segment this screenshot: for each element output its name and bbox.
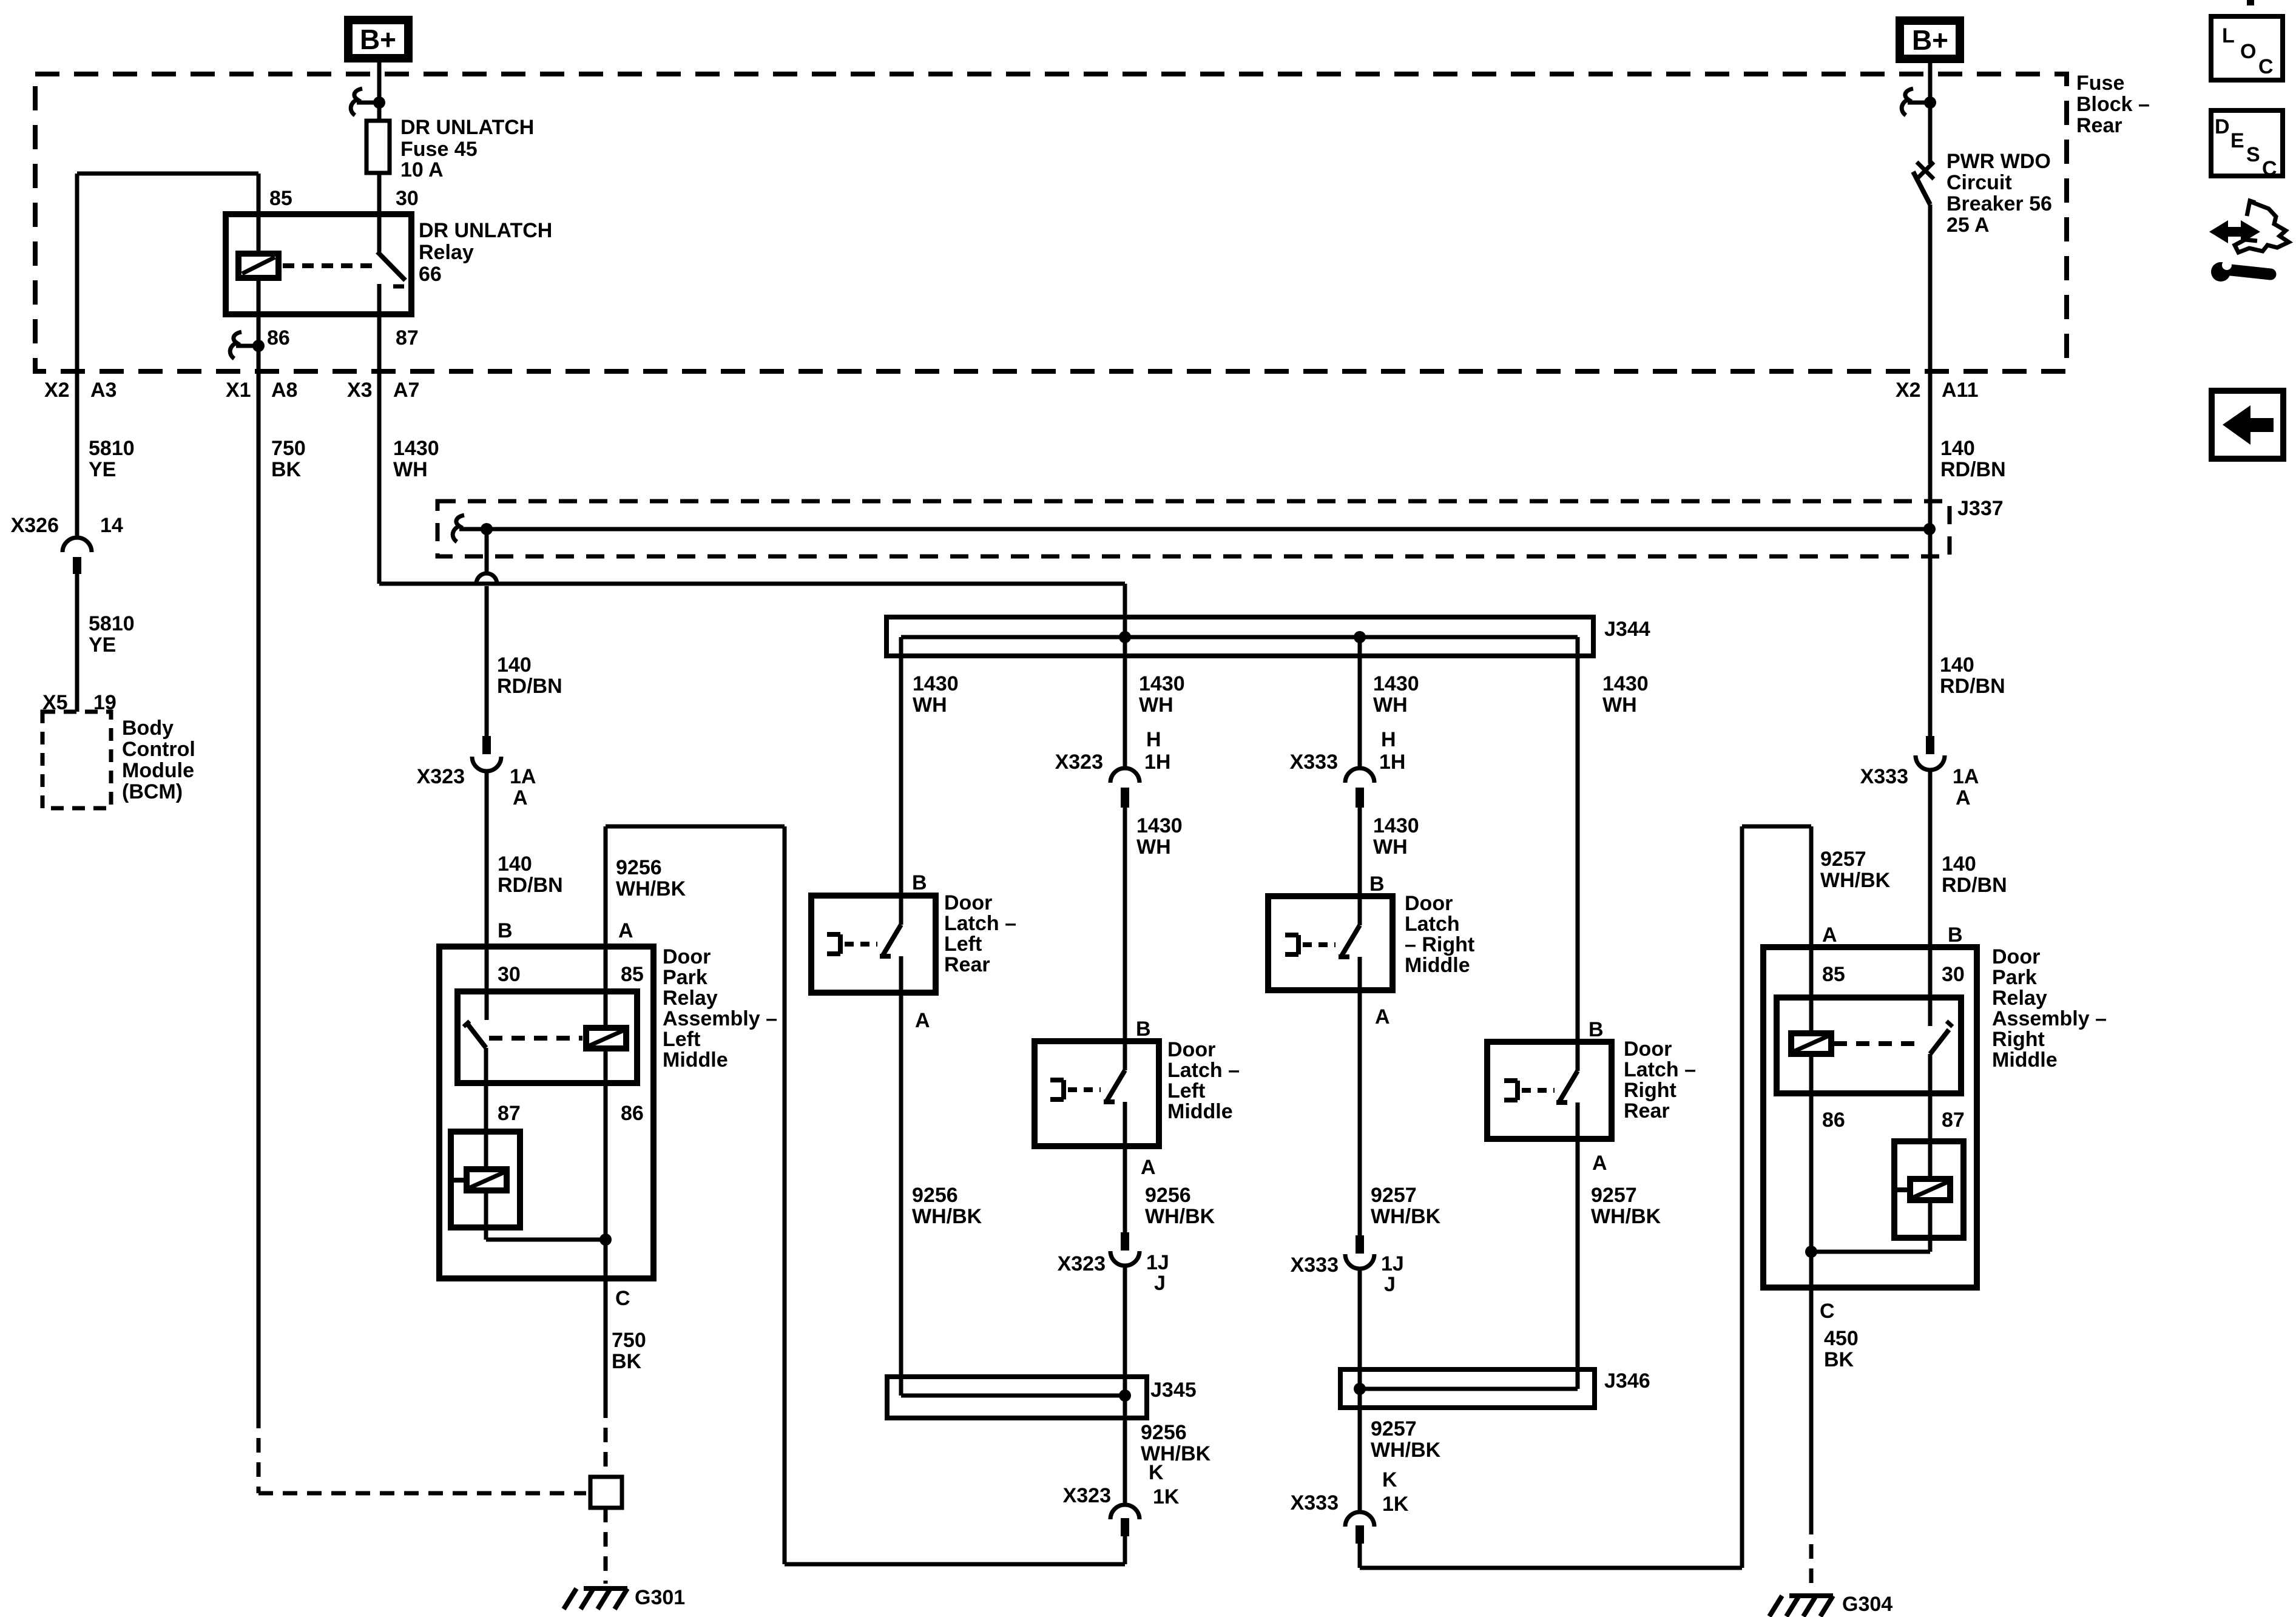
svg-text:X2: X2: [44, 379, 70, 402]
svg-text:Right: Right: [1624, 1079, 1676, 1102]
svg-text:Relay: Relay: [663, 987, 718, 1010]
svg-text:A: A: [1822, 923, 1837, 947]
svg-text:B+: B+: [360, 24, 396, 55]
svg-text:X333: X333: [1291, 1491, 1339, 1514]
svg-text:Rear: Rear: [2076, 114, 2122, 137]
svg-text:87: 87: [498, 1102, 521, 1125]
svg-text:BK: BK: [612, 1350, 642, 1373]
svg-text:140: 140: [1940, 653, 1974, 677]
svg-text:9256: 9256: [1145, 1184, 1191, 1207]
svg-text:86: 86: [267, 326, 290, 349]
svg-text:WH/BK: WH/BK: [912, 1205, 982, 1228]
svg-text:L: L: [2222, 24, 2235, 47]
svg-text:C: C: [2258, 55, 2274, 78]
svg-text:WH/BK: WH/BK: [1591, 1205, 1661, 1228]
svg-text:30: 30: [396, 187, 419, 210]
svg-text:X1: X1: [226, 379, 251, 402]
svg-text:Middle: Middle: [1405, 954, 1470, 977]
svg-text:1430: 1430: [1139, 672, 1185, 695]
svg-text:Assembly –: Assembly –: [1992, 1007, 2107, 1030]
svg-text:X326: X326: [11, 514, 59, 537]
svg-text:WH: WH: [393, 458, 428, 481]
svg-text:A8: A8: [271, 379, 297, 402]
svg-text:Middle: Middle: [1992, 1048, 2058, 1072]
svg-text:1K: 1K: [1153, 1485, 1180, 1508]
svg-text:WH/BK: WH/BK: [1820, 869, 1891, 892]
svg-text:Body: Body: [122, 717, 174, 740]
svg-text:PWR WDO: PWR WDO: [1947, 150, 2051, 173]
svg-text:H: H: [1381, 728, 1396, 751]
svg-text:B+: B+: [1912, 24, 1948, 56]
svg-text:1430: 1430: [1373, 814, 1419, 837]
svg-text:5810: 5810: [89, 612, 135, 635]
svg-text:B: B: [498, 919, 513, 942]
svg-text:87: 87: [1942, 1109, 1965, 1132]
svg-text:86: 86: [1822, 1109, 1845, 1132]
svg-text:DR UNLATCH: DR UNLATCH: [400, 116, 534, 139]
svg-text:19: 19: [93, 691, 116, 714]
svg-text:X323: X323: [1063, 1484, 1111, 1507]
svg-text:Left: Left: [944, 933, 982, 956]
svg-text:BK: BK: [271, 458, 302, 481]
svg-text:30: 30: [498, 963, 521, 986]
svg-text:C: C: [615, 1287, 630, 1310]
svg-text:WH/BK: WH/BK: [1145, 1205, 1215, 1228]
svg-text:9257: 9257: [1591, 1184, 1637, 1207]
svg-text:14: 14: [100, 514, 123, 537]
svg-text:140: 140: [1940, 437, 1975, 460]
svg-text:1430: 1430: [913, 672, 959, 695]
svg-text:5810: 5810: [89, 437, 135, 460]
svg-text:85: 85: [1822, 963, 1845, 986]
svg-text:RD/BN: RD/BN: [1940, 458, 2006, 481]
svg-text:B: B: [1369, 873, 1385, 896]
svg-text:– Right: – Right: [1405, 933, 1474, 956]
svg-text:G304: G304: [1842, 1593, 1893, 1616]
svg-text:B: B: [1589, 1018, 1604, 1041]
svg-text:A3: A3: [90, 379, 116, 402]
svg-text:J346: J346: [1604, 1369, 1650, 1393]
svg-text:1430: 1430: [1602, 672, 1649, 695]
svg-text:Door: Door: [944, 891, 992, 914]
svg-text:140: 140: [1942, 852, 1976, 876]
svg-text:B: B: [1136, 1018, 1151, 1041]
svg-text:10 A: 10 A: [400, 158, 444, 181]
svg-text:BK: BK: [1824, 1348, 1854, 1371]
svg-text:A: A: [1592, 1152, 1607, 1175]
svg-text:Left: Left: [1167, 1079, 1205, 1102]
svg-text:30: 30: [1942, 963, 1965, 986]
svg-text:9257: 9257: [1820, 848, 1866, 871]
svg-text:J345: J345: [1150, 1379, 1197, 1402]
svg-text:A: A: [1375, 1005, 1390, 1028]
svg-text:D: D: [2215, 115, 2230, 138]
svg-text:9257: 9257: [1371, 1184, 1417, 1207]
svg-text:1430: 1430: [1373, 672, 1419, 695]
svg-text:1K: 1K: [1382, 1493, 1409, 1516]
svg-text:RD/BN: RD/BN: [1942, 874, 2007, 897]
svg-text:Latch: Latch: [1405, 913, 1460, 936]
svg-text:140: 140: [497, 653, 532, 677]
svg-text:WH/BK: WH/BK: [1371, 1439, 1441, 1462]
svg-text:WH: WH: [913, 694, 947, 717]
svg-text:9256: 9256: [616, 856, 662, 879]
svg-text:66: 66: [419, 263, 442, 286]
svg-text:A11: A11: [1942, 379, 1979, 402]
svg-text:X323: X323: [417, 765, 465, 788]
svg-text:Relay: Relay: [1992, 987, 2047, 1010]
svg-text:C: C: [1820, 1300, 1835, 1323]
svg-text:1J: 1J: [1381, 1252, 1404, 1275]
svg-text:C: C: [2262, 157, 2277, 180]
svg-text:85: 85: [269, 187, 292, 210]
svg-text:K: K: [1382, 1468, 1397, 1491]
svg-text:A: A: [618, 919, 633, 942]
svg-text:X2: X2: [1896, 379, 1921, 402]
svg-text:Middle: Middle: [663, 1048, 728, 1072]
svg-text:750: 750: [612, 1329, 646, 1352]
svg-text:Right: Right: [1992, 1028, 2045, 1051]
svg-text:J344: J344: [1604, 618, 1650, 641]
svg-text:9256: 9256: [912, 1184, 958, 1207]
svg-text:J: J: [1384, 1273, 1396, 1296]
svg-text:WH: WH: [1136, 836, 1171, 859]
svg-text:Door: Door: [1167, 1038, 1215, 1061]
svg-text:J337: J337: [1957, 497, 2004, 520]
svg-text:Middle: Middle: [1167, 1100, 1233, 1123]
svg-text:Module: Module: [122, 759, 194, 782]
svg-text:Door: Door: [663, 945, 711, 968]
svg-text:WH: WH: [1602, 694, 1637, 717]
svg-text:1430: 1430: [1136, 814, 1183, 837]
svg-text:1A: 1A: [1953, 765, 1979, 788]
svg-text:Latch –: Latch –: [1167, 1059, 1240, 1082]
svg-text:B: B: [912, 871, 927, 894]
svg-text:H: H: [1146, 728, 1161, 751]
svg-text:Rear: Rear: [944, 953, 990, 976]
svg-text:9257: 9257: [1371, 1417, 1417, 1440]
svg-text:Fuse: Fuse: [2076, 72, 2124, 95]
svg-text:WH: WH: [1139, 694, 1173, 717]
svg-text:Circuit: Circuit: [1947, 171, 2012, 194]
svg-text:X323: X323: [1055, 751, 1103, 774]
svg-text:YE: YE: [89, 633, 116, 657]
svg-text:A: A: [1141, 1156, 1156, 1179]
svg-text:140: 140: [498, 852, 532, 876]
svg-text:1A: 1A: [510, 765, 536, 788]
svg-text:RD/BN: RD/BN: [498, 874, 563, 897]
svg-text:25 A: 25 A: [1947, 214, 1990, 237]
svg-text:A: A: [1956, 786, 1971, 809]
svg-text:Latch –: Latch –: [1624, 1058, 1696, 1081]
svg-text:450: 450: [1824, 1327, 1859, 1350]
svg-text:S: S: [2246, 143, 2260, 166]
svg-text:(BCM): (BCM): [122, 780, 183, 803]
svg-text:E: E: [2230, 129, 2244, 152]
svg-text:Left: Left: [663, 1028, 700, 1051]
svg-text:X333: X333: [1291, 1254, 1339, 1277]
svg-text:86: 86: [621, 1102, 644, 1125]
svg-text:RD/BN: RD/BN: [1940, 675, 2005, 698]
svg-text:WH/BK: WH/BK: [616, 877, 686, 900]
svg-text:WH: WH: [1373, 694, 1408, 717]
svg-text:WH/BK: WH/BK: [1371, 1205, 1441, 1228]
svg-text:YE: YE: [89, 458, 116, 481]
svg-text:Assembly –: Assembly –: [663, 1007, 777, 1030]
svg-text:K: K: [1149, 1461, 1164, 1484]
svg-text:750: 750: [271, 437, 306, 460]
svg-text:B: B: [1948, 923, 1963, 947]
svg-text:WH: WH: [1373, 836, 1408, 859]
svg-text:9256: 9256: [1141, 1421, 1187, 1444]
svg-text:1430: 1430: [393, 437, 439, 460]
svg-text:X323: X323: [1058, 1252, 1106, 1275]
svg-text:Rear: Rear: [1624, 1099, 1670, 1122]
svg-text:A7: A7: [393, 379, 419, 402]
svg-text:Block –: Block –: [2076, 93, 2150, 116]
svg-text:X333: X333: [1860, 765, 1908, 788]
svg-text:DR UNLATCH: DR UNLATCH: [419, 219, 552, 242]
svg-text:J: J: [1154, 1272, 1166, 1295]
svg-text:Breaker 56: Breaker 56: [1947, 192, 2052, 215]
svg-text:Park: Park: [1992, 966, 2037, 989]
svg-text:Door: Door: [1992, 945, 2040, 968]
svg-text:1H: 1H: [1379, 751, 1405, 774]
svg-text:1J: 1J: [1146, 1251, 1169, 1274]
svg-text:O: O: [2240, 40, 2256, 63]
svg-text:Door: Door: [1405, 892, 1453, 915]
svg-text:A: A: [513, 786, 528, 809]
svg-text:Latch –: Latch –: [944, 912, 1016, 935]
svg-text:Relay: Relay: [419, 241, 474, 264]
svg-text:Fuse 45: Fuse 45: [400, 138, 478, 161]
svg-text:A: A: [915, 1009, 930, 1032]
svg-text:RD/BN: RD/BN: [497, 675, 562, 698]
svg-text:X3: X3: [347, 379, 373, 402]
svg-text:1H: 1H: [1144, 751, 1170, 774]
svg-text:X5: X5: [42, 691, 68, 714]
svg-text:Door: Door: [1624, 1038, 1672, 1061]
svg-text:Control: Control: [122, 738, 195, 761]
svg-text:G301: G301: [635, 1586, 685, 1609]
svg-text:85: 85: [621, 963, 644, 986]
svg-text:X333: X333: [1290, 751, 1338, 774]
svg-text:87: 87: [396, 326, 419, 349]
svg-text:Park: Park: [663, 966, 707, 989]
